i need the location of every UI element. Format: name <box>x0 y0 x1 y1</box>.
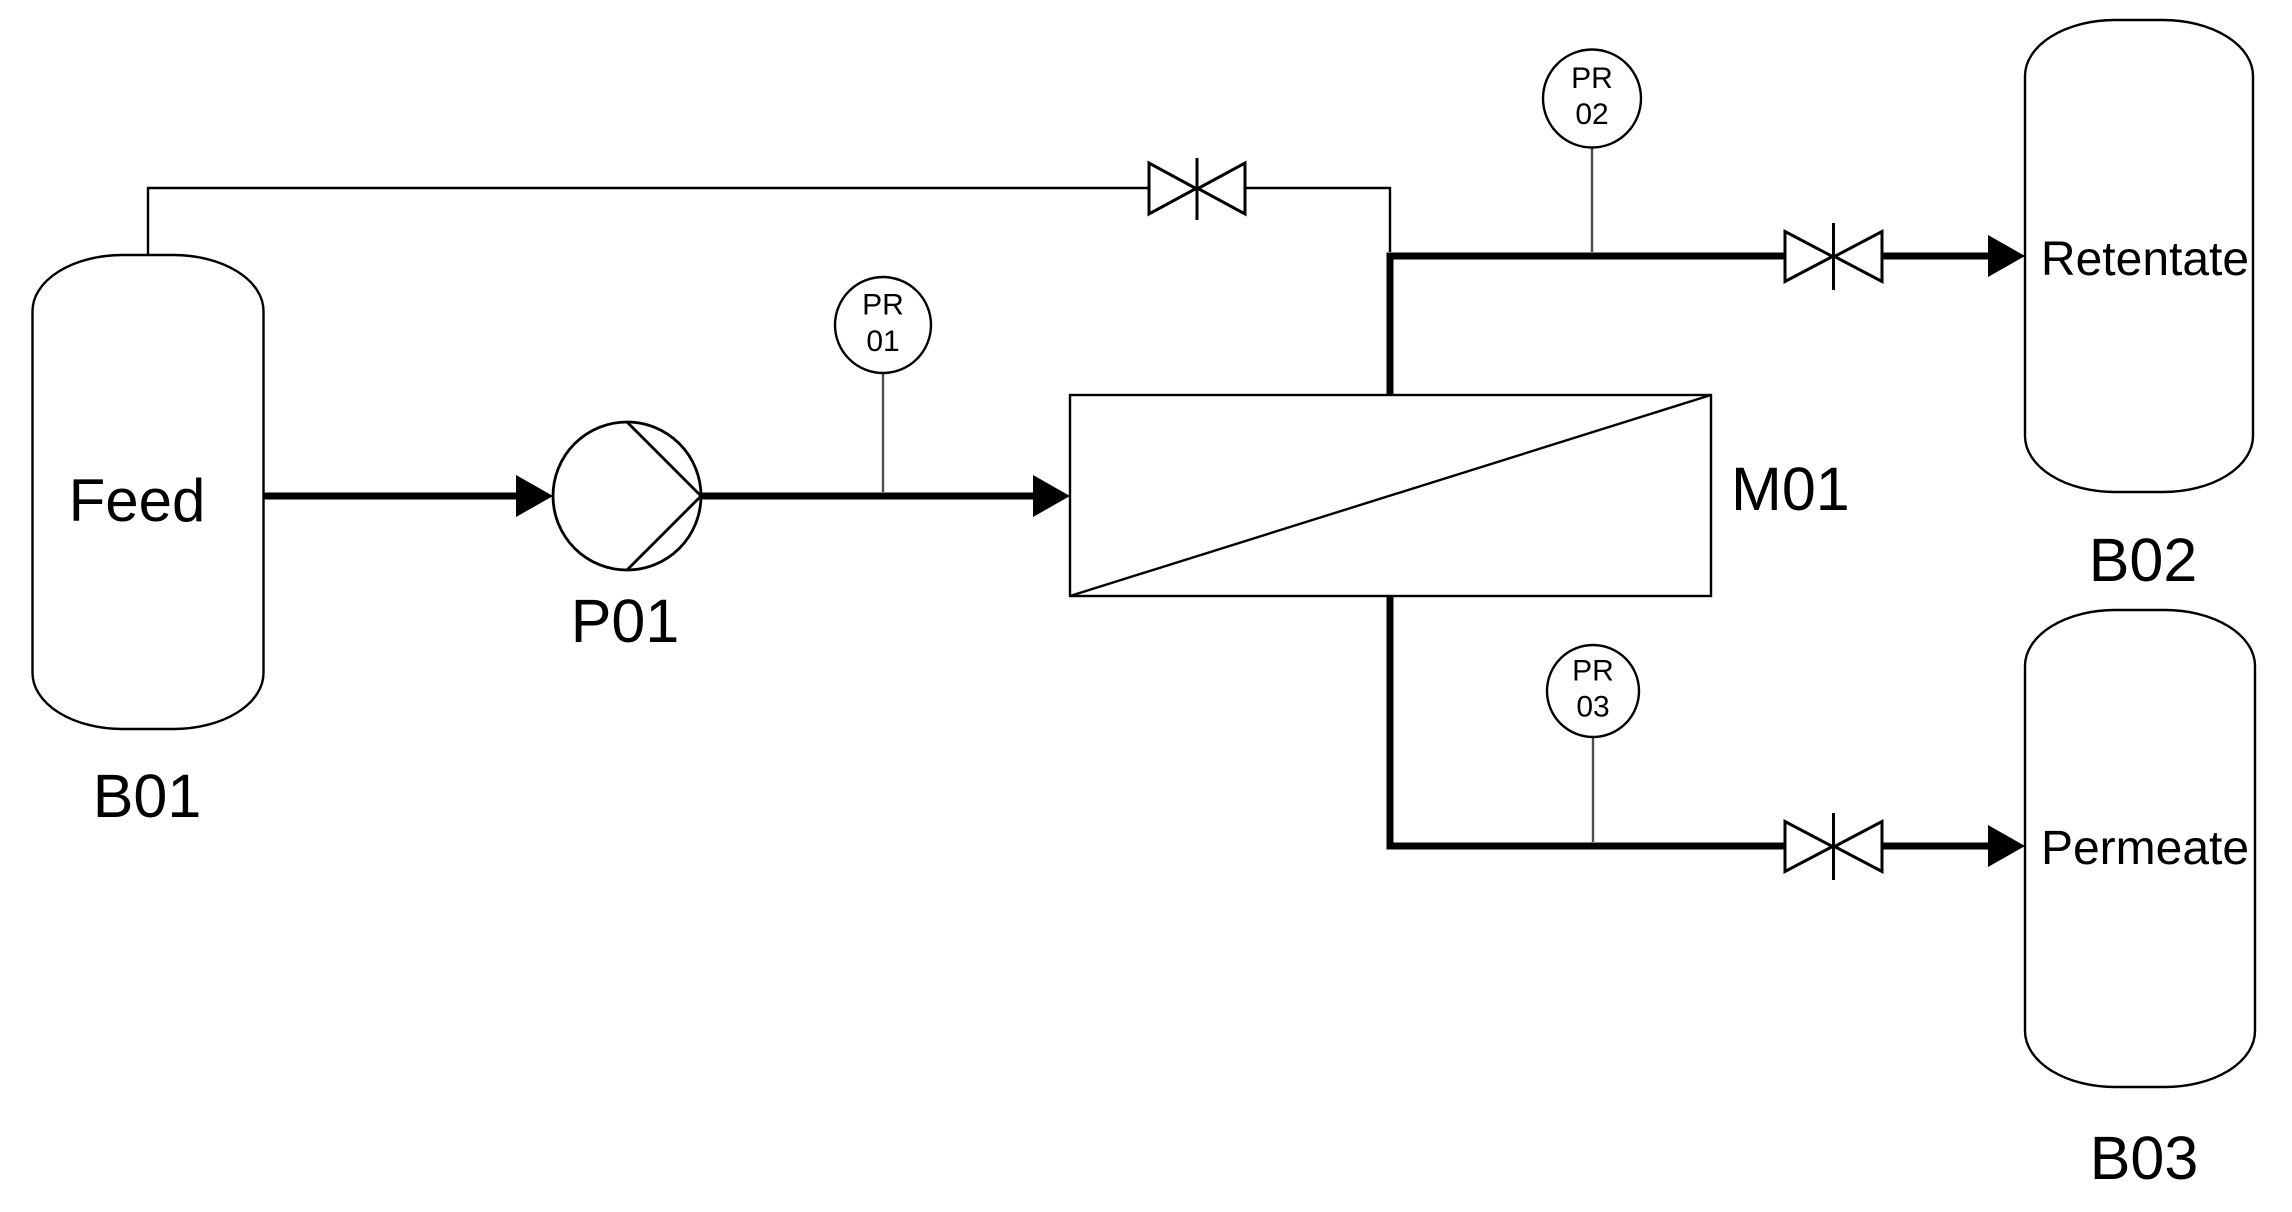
indicator PR03 <box>1547 645 1639 842</box>
svg-text:PR: PR <box>862 289 904 322</box>
svg-text:B01: B01 <box>93 762 202 830</box>
valve V1 (recycle line) <box>1149 158 1245 220</box>
tank B01 (Feed) <box>33 255 264 729</box>
pipe membrane top to retentate valve (thick) <box>1390 256 1785 395</box>
pump P01 <box>553 422 701 570</box>
svg-text:P01: P01 <box>571 587 680 655</box>
indicator PR01 <box>835 277 931 492</box>
svg-text:PR: PR <box>1572 655 1614 688</box>
pipe feed tank to pump (thick) <box>264 475 553 517</box>
svg-text:Retentate: Retentate <box>2041 233 2249 286</box>
svg-text:M01: M01 <box>1731 455 1850 523</box>
svg-text:Feed: Feed <box>69 467 206 534</box>
svg-text:PR: PR <box>1571 62 1613 95</box>
valve V3 (permeate line) <box>1785 813 1882 880</box>
pipe pump to membrane M01 (thick) <box>701 475 1070 517</box>
tank B02 (Retentate) <box>2025 20 2253 492</box>
wire recycle line from tank B01 top to retentate junction <box>148 188 1390 254</box>
membrane module M01 <box>1070 395 1711 596</box>
svg-text:Permeate: Permeate <box>2041 822 2249 875</box>
svg-text:B03: B03 <box>2090 1124 2199 1192</box>
svg-text:02: 02 <box>1575 98 1608 131</box>
tank B03 (Permeate) <box>2025 610 2255 1087</box>
pipe valve V2 to tank B02 (thick with arrow) <box>1882 235 2025 277</box>
pipe membrane bottom to permeate valve (thick) <box>1390 596 1785 846</box>
svg-text:B02: B02 <box>2089 526 2198 594</box>
svg-text:03: 03 <box>1576 691 1609 724</box>
svg-text:01: 01 <box>866 325 899 358</box>
valve V2 (retentate line) <box>1785 223 1882 290</box>
pipe valve V3 to tank B03 (thick with arrow) <box>1882 825 2025 867</box>
indicator PR02 <box>1543 50 1641 253</box>
